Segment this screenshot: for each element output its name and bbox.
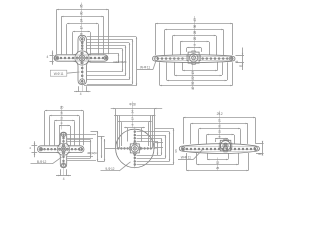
horn C ext left 4 [59, 126, 61, 145]
svg-text:11: 11 [60, 117, 64, 120]
horn E bottom dim 1 [207, 159, 228, 161]
horn A ext line left 4 [72, 32, 74, 54]
horn D right chain dim 4 [173, 128, 175, 164]
horn C bottom arm [57, 153, 71, 168]
horn A chain dim 3 [129, 43, 131, 80]
horn C bar [38, 146, 85, 153]
horn C bar holes left [39, 148, 56, 151]
horn E ext right 3 [240, 129, 242, 144]
horn B bottom ext right 4 [232, 62, 234, 85]
horn E ext left 1 [183, 118, 185, 144]
horn B bottom dim 2 [174, 75, 222, 77]
svg-text:Φ 28: Φ 28 [129, 102, 136, 106]
horn A horizontal bar [54, 55, 108, 61]
svg-text:W-Φ 11: W-Φ 11 [54, 72, 64, 76]
horn C bottom arm leader right 2 [67, 160, 96, 162]
horn A top arm leader 3 [87, 45, 126, 47]
horn A hub flange [75, 51, 89, 65]
horn B bottom dim 1 [183, 70, 218, 72]
horn A thickness dim [52, 51, 54, 65]
svg-text:17: 17 [79, 26, 83, 30]
horn A left ext bottom [50, 61, 54, 63]
svg-text:W-Φ 11: W-Φ 11 [181, 155, 191, 159]
horn C top arm leader right 2 [67, 138, 93, 140]
horn D dim line 2 [114, 115, 156, 117]
horn A dim line 4 [73, 31, 90, 33]
horn B ext left 3 [172, 36, 174, 55]
horn E hub ext left [215, 139, 217, 142]
horn E hub square [220, 140, 231, 151]
horn B ext right 2 [223, 30, 225, 55]
svg-text:22: 22 [191, 76, 195, 80]
horn B bottom ext right 2 [222, 62, 224, 75]
horn A ext line right 2 [103, 17, 105, 54]
svg-text:40: 40 [191, 87, 195, 91]
horn C dim line 2 [49, 115, 79, 117]
horn D left chain dim 2 [101, 136, 103, 158]
horn A hub center cross [80, 56, 85, 61]
horn C bottom ext 1 [60, 169, 62, 176]
horn D centerline extension left [105, 148, 117, 150]
horn C hub screw hole right [66, 148, 68, 150]
horn C top arm leader right 1 [67, 134, 96, 136]
horn B bar rib bottom [158, 60, 231, 62]
horn E ext right 2 [247, 124, 249, 144]
horn B bar holes right [202, 58, 232, 60]
horn B ext right 4 [209, 42, 211, 55]
horn B bottom ext left 3 [166, 62, 168, 80]
horn B hub circle [189, 54, 197, 62]
horn E bottom ext right 1 [228, 153, 230, 159]
horn B bottom ext right 3 [227, 62, 229, 80]
horn A bar holes right [90, 56, 108, 60]
horn A ext line left 3 [66, 24, 68, 54]
horn C bottom width dim [56, 175, 71, 177]
horn E right ext top [256, 143, 264, 145]
horn E right ext bottom [256, 153, 264, 155]
svg-text:21: 21 [218, 124, 222, 128]
horn E hub inner hole [224, 144, 226, 146]
horn B right ext top [236, 55, 245, 57]
horn A bottom ext 2 [86, 86, 88, 92]
horn D ext right 1 [154, 109, 156, 149]
horn E hub width dim [215, 138, 228, 140]
horn C top leader [67, 139, 90, 141]
horn B bottom ext left 2 [174, 62, 176, 75]
horn B ext right 3 [216, 36, 218, 55]
horn B hub ext right [201, 48, 203, 52]
horn C ext left 2 [49, 116, 51, 145]
horn D ext left 3 [119, 115, 121, 148]
horn E bottom ext left 1 [207, 153, 209, 159]
horn B bottom dim 4 [160, 85, 233, 87]
horn A hub hole leader top [90, 53, 119, 55]
horn A chain dim 2 [125, 46, 127, 76]
horn B dim line 4 [180, 41, 209, 43]
horn D hole callout 9-phi-12 [101, 167, 120, 171]
svg-text:9-Φ 12: 9-Φ 12 [105, 167, 114, 171]
svg-text:W-Φ 11: W-Φ 11 [140, 66, 150, 70]
horn C hub center hole [62, 148, 64, 150]
horn C thickness dim [34, 141, 36, 157]
horn C top arm leader right 3 [67, 141, 91, 143]
horn D ext left 4 [121, 122, 123, 146]
horn E dim line 2 [191, 123, 248, 125]
horn A ext line right 3 [98, 24, 100, 54]
horn A top arm leader 1 [87, 39, 133, 41]
svg-text:43: 43 [193, 18, 197, 22]
horn A bottom arm leader 3 [87, 79, 129, 81]
horn E dim centerline bottom [217, 158, 219, 171]
horn B hub square [188, 52, 199, 63]
svg-text:24: 24 [79, 19, 83, 23]
horn C ext left 3 [54, 121, 56, 145]
horn B ext left 4 [180, 42, 182, 55]
horn E dim centerline top [219, 111, 221, 139]
horn B bar [153, 55, 236, 63]
horn B hole callout W-phi-11 [137, 66, 153, 70]
svg-text:13: 13 [216, 161, 220, 165]
horn D ext right 5 [141, 128, 143, 142]
horn D hub square [130, 144, 139, 153]
horn A top arm holes [80, 37, 85, 50]
horn B dim line 2 [165, 29, 224, 31]
horn E overall length dim [183, 117, 256, 119]
horn E bar [179, 144, 259, 154]
horn E bottom dim 3 [186, 170, 249, 172]
horn C bottom ext 2 [66, 169, 68, 176]
horn D right stub top [155, 128, 174, 130]
horn A hub center hole [81, 57, 84, 60]
svg-text:17: 17 [131, 117, 135, 121]
svg-text:30: 30 [79, 11, 83, 15]
svg-text:24: 24 [131, 110, 135, 114]
horn C hub flange [58, 143, 70, 155]
horn E bar end ring right [254, 147, 258, 151]
horn D left stub mid [98, 136, 105, 138]
horn A ext line left 1 [56, 10, 58, 55]
svg-text:28: 28 [193, 31, 197, 35]
horn A bar holes left [55, 56, 74, 60]
horn B hub spline notches [187, 51, 200, 64]
horn A chain dim 4 [132, 39, 134, 84]
horn D ext right 4 [148, 122, 150, 146]
horn D horizontal centerline [117, 148, 158, 150]
horn C bottom leader [67, 158, 90, 160]
horn D ext right 2 [152, 115, 154, 148]
horn D ext left 1 [115, 109, 117, 149]
horn B hub ext left [186, 48, 188, 52]
horn D right leader 2 [137, 135, 166, 137]
horn D left stub top [91, 131, 98, 133]
horn D right leader 3 [137, 138, 162, 140]
horn C hub screw hole bottom [62, 152, 64, 154]
svg-text:15: 15 [218, 130, 222, 134]
horn C hub screw hole left [58, 148, 60, 150]
horn A top arm [74, 35, 92, 55]
horn C dim line 3 [54, 120, 74, 122]
horn C hub circle [61, 147, 66, 152]
horn B bar end ring left [155, 57, 159, 61]
horn B bar rib top [158, 56, 231, 58]
horn D callout leader [119, 162, 130, 171]
horn D vertical hole row [134, 131, 136, 166]
horn A bottom tip leader [84, 85, 136, 87]
horn C ext right 3 [74, 121, 76, 145]
horn E dim line 3 [199, 128, 241, 130]
svg-text:36: 36 [193, 25, 197, 29]
horn A dim line 3 [67, 23, 98, 25]
svg-text:16: 16 [60, 111, 64, 115]
horn D hub circle [131, 145, 138, 152]
horn A top tip leader [87, 36, 136, 38]
horn E bar centerline [181, 149, 259, 151]
horn A dim centerline [81, 3, 83, 36]
horn B ext left 1 [155, 23, 157, 55]
horn D right leader 6 [137, 161, 170, 163]
horn D dim line 4 [124, 127, 145, 129]
horn A bottom width dim [74, 91, 91, 93]
horn E ext right 1 [255, 118, 257, 144]
horn A chain dim 5 [136, 37, 138, 86]
horn D ext left 5 [127, 128, 129, 142]
svg-text:20: 20 [60, 106, 64, 110]
svg-text:D4Φ2R2C: D4Φ2R2C [114, 60, 128, 64]
horn B bottom ext left 1 [182, 62, 184, 70]
horn D right chain dim 2 [165, 135, 167, 158]
horn B dim line 3 [173, 35, 217, 37]
horn D disc outline [116, 129, 154, 167]
horn E ext left 4 [206, 135, 208, 144]
horn B bottom ext right 1 [217, 62, 219, 70]
horn A bar centerline [55, 58, 107, 60]
horn A bottom arm leader 4 [87, 84, 133, 86]
horn D left chain dim 1 [97, 131, 99, 161]
horn E ext left 2 [190, 124, 192, 144]
horn E hole callout W-phi-11 [178, 155, 194, 159]
horn B bar centerline [154, 58, 235, 60]
horn A bottom arm [74, 61, 92, 84]
horn B ext left 2 [164, 30, 166, 55]
horn C bottom arm holes [61, 156, 65, 167]
horn D right leader 7 [137, 164, 174, 166]
horn E dim line 4 [207, 134, 235, 136]
horn E bar end ring left [181, 147, 185, 151]
horn E hub circle [221, 141, 231, 151]
svg-text:35: 35 [79, 4, 83, 8]
horn D ext left 2 [117, 115, 119, 148]
horn C callout leader [53, 157, 62, 164]
horn C bottom arm leader right 1 [67, 156, 93, 158]
horn A ext line right 4 [90, 32, 92, 54]
horn D right stub mid 2 [155, 147, 163, 149]
horn B hub width dim [187, 47, 201, 49]
horn C top arm holes [61, 133, 65, 143]
horn D right chain dim 5 [157, 141, 159, 155]
horn C bar centerline [39, 149, 84, 151]
horn C hub center cross [62, 147, 66, 151]
svg-text:B-Φ 12: B-Φ 12 [37, 160, 47, 164]
horn E hub center hole [223, 143, 228, 148]
horn B hub center hole [192, 56, 196, 60]
horn D right leader 1 [137, 131, 170, 133]
horn B right ext bottom [236, 62, 245, 64]
svg-text:32: 32 [191, 81, 195, 85]
horn B bar holes left [157, 58, 183, 60]
horn E thickness dim [262, 141, 264, 156]
svg-text:13: 13 [191, 71, 195, 75]
horn B overall length dim [155, 23, 232, 25]
horn D diameter dim line [111, 108, 163, 110]
horn B callout leader [153, 60, 156, 70]
horn B bar end ring right [229, 57, 233, 61]
horn D left stub bottom [98, 161, 105, 163]
svg-text:25: 25 [216, 166, 220, 170]
horn C bar holes right [71, 148, 83, 151]
horn D right stub mid 1 [155, 142, 163, 144]
horn C dim centerline [61, 106, 63, 130]
horn A hub screw hole right [86, 57, 88, 59]
horn B bottom ext left 4 [159, 62, 161, 85]
horn E bottom dim 2 [197, 164, 239, 166]
horn E bar rib bottom [185, 151, 255, 153]
horn C arm centerline [63, 133, 65, 176]
horn A hub circle [79, 55, 85, 61]
horn C hub screw hole top [62, 144, 64, 146]
horn A bottom arm holes [80, 67, 85, 84]
horn B center cross [192, 56, 195, 59]
svg-text:27: 27 [218, 119, 222, 123]
horn D right leader 5 [137, 158, 166, 160]
horn D vertical centerline [134, 127, 136, 169]
horn C hole callout B-phi-12 [31, 160, 53, 164]
horn D dim centerline [132, 102, 134, 128]
horn A bottom ext 1 [78, 86, 80, 92]
horn C overall width dim [45, 110, 84, 112]
horn A top arm leader 4 [87, 48, 122, 50]
svg-text:20: 20 [193, 37, 197, 41]
horn E center cross [224, 144, 227, 147]
horn D center cross [134, 147, 136, 149]
horn C ext right 4 [70, 126, 72, 145]
horn D hub center hole [133, 147, 136, 150]
horn A chain dim 0 [118, 53, 120, 63]
horn E bottom ext right 2 [238, 153, 240, 164]
horn D hub spline notches [129, 143, 140, 154]
horn B dim centerline top [194, 16, 196, 52]
horn B ext right 1 [232, 23, 234, 55]
svg-text:29.2: 29.2 [217, 112, 223, 116]
horn A dim line 2 [61, 16, 104, 18]
horn B bottom dim 3 [167, 80, 227, 82]
horn D right leader 8 [137, 141, 158, 143]
horn C top arm [57, 132, 71, 146]
horn E ext right 4 [234, 135, 236, 144]
horn C left ext top [32, 145, 38, 147]
horn A left ext top [50, 55, 54, 57]
horn A hub screw hole top [81, 52, 83, 54]
horn D right leader 4 [137, 155, 162, 157]
horn E bar rib top [185, 146, 255, 148]
horn E bottom ext left 3 [186, 153, 188, 170]
horn E bar holes [182, 148, 256, 150]
horn A overall width dim line [57, 9, 109, 11]
horn B dim centerline bottom [192, 64, 194, 89]
horn C ext left 1 [44, 111, 46, 145]
horn E bottom ext left 2 [196, 153, 198, 164]
horn C ext right 2 [79, 116, 81, 145]
horn C left ext bottom [32, 152, 38, 154]
horn A hub hole leader bottom [90, 62, 119, 64]
horn A ext line left 2 [61, 17, 63, 54]
horn E hub spline notches [219, 139, 232, 152]
horn A callout leader [67, 72, 80, 73]
horn D horizontal hole row [117, 148, 151, 150]
horn A hole callout W-phi-11 [50, 70, 67, 76]
horn E hub ext right [228, 139, 230, 142]
horn D right chain dim 3 [169, 132, 171, 162]
horn A top arm leader 2 [87, 42, 129, 44]
horn A arm centerline [82, 36, 84, 91]
horn A chain dim 1 [122, 49, 124, 72]
horn D right chain dim 1 [161, 138, 163, 155]
horn D dim line 3 [118, 121, 152, 123]
horn E ext left 3 [198, 129, 200, 144]
horn B thickness dim [242, 48, 244, 71]
horn E bottom ext right 3 [248, 153, 250, 170]
horn A hub screw hole bottom [81, 62, 83, 64]
horn D left chain dim 3 [104, 139, 106, 161]
horn E callout leader [194, 150, 203, 160]
horn A ext line right 1 [108, 10, 110, 55]
horn A bottom arm leader 2 [87, 75, 126, 77]
horn A hub screw hole left [76, 57, 78, 59]
horn C dim line 4 [59, 125, 70, 127]
horn D ext right 3 [150, 115, 152, 148]
horn C right chain dim [90, 140, 92, 158]
svg-text:4Φ(12)C: 4Φ(12)C [87, 151, 98, 155]
horn C ext right 1 [83, 111, 85, 145]
horn A bottom arm leader 1 [87, 71, 122, 73]
